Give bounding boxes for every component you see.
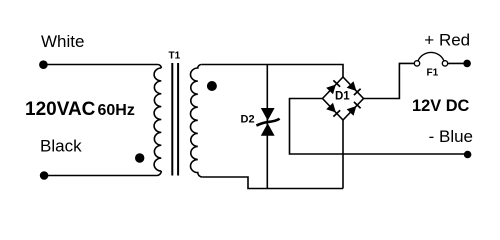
svg-text:White: White [41,32,84,51]
wire: Black (neutral) bottom lead [44,171,161,176]
diode D1 top-left (anode at left vertex) [326,80,340,94]
svg-text:120VAC: 120VAC [25,99,96,120]
transformer T1 secondary winding [191,65,203,178]
transformer T1 primary winding [154,68,161,171]
phase dot: secondary winding [207,81,217,91]
wire: secondary top to bridge top vertex [201,65,343,78]
phase dot: primary winding [135,153,144,162]
svg-text:F1: F1 [427,68,439,79]
diode D1 bottom-left (anode at left vertex) [326,103,340,117]
svg-text:+ Red: + Red [424,31,470,50]
bridge rectifier D1 diamond outline [323,77,364,120]
svg-text:D1: D1 [335,91,350,103]
wire: secondary bottom with jog [202,177,343,189]
wire: positive riser (right vertex to fuse) [364,63,415,98]
terminal dot: Black lead [40,171,49,180]
TVS diode D2 symbol [256,108,279,136]
wire: negative output loop (left vertex to - terminal) [290,99,467,155]
terminal dot: White lead [39,60,48,69]
wire: White (hot) top lead [43,65,161,69]
wire: D2 branch (across secondary) [266,65,268,189]
diode D1 top-right (cathode at right vertex) [347,81,361,95]
diode D1 bottom-right (cathode at right vertex) [347,102,361,116]
svg-text:D2: D2 [241,114,255,126]
wire: bridge bottom vertex lead [342,120,344,189]
svg-text:12V DC: 12V DC [412,97,470,115]
svg-text:60Hz: 60Hz [98,102,135,119]
terminal dot: + Red [463,60,471,68]
svg-text:Black: Black [40,137,82,156]
wire: fuse to + terminal [448,62,466,64]
svg-text:T1: T1 [169,51,181,62]
terminal dot: - Blue [464,151,472,159]
transformer T1 core line 2 [177,63,179,176]
transformer T1 core line 1 [171,63,173,176]
svg-text:- Blue: - Blue [429,127,473,146]
fuse F1 symbol [414,52,447,66]
